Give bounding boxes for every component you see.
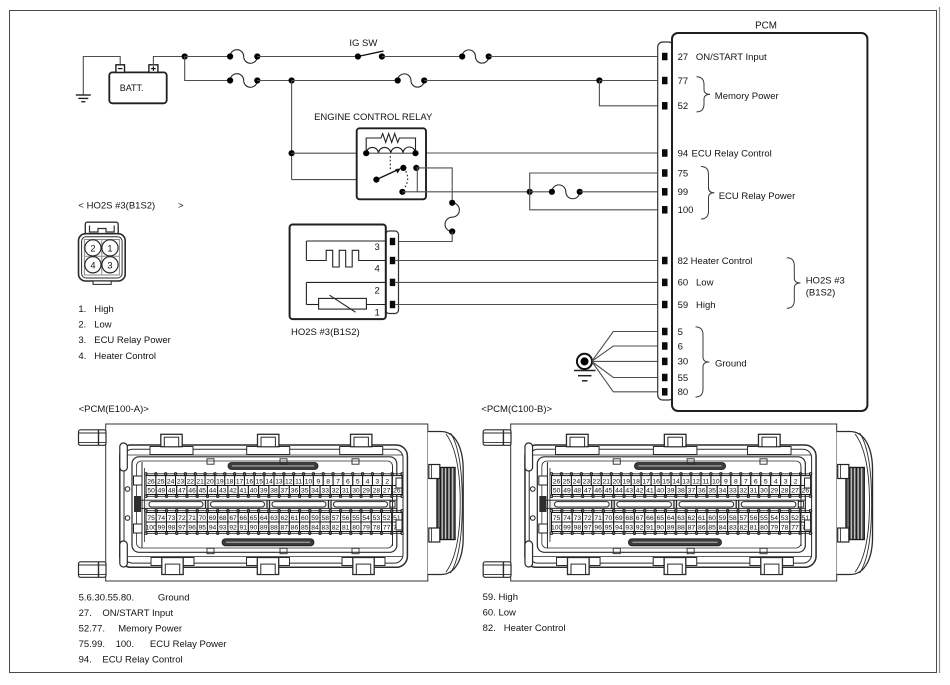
svg-text:75: 75 — [678, 168, 689, 179]
brace HO2S — [787, 258, 801, 309]
connector top tab 2 — [653, 434, 697, 454]
svg-text:91: 91 — [646, 525, 654, 532]
connector top inner dark bar — [228, 463, 318, 470]
bottom left legend — [79, 593, 227, 666]
svg-text:77: 77 — [791, 525, 799, 532]
relay K1 switch blade with arrow — [373, 168, 401, 182]
fuse F1 — [230, 50, 257, 64]
connector left mount tab lower — [483, 562, 511, 578]
svg-text:24: 24 — [167, 479, 175, 486]
svg-text:<PCM(E100-A)>: <PCM(E100-A)> — [79, 404, 150, 415]
svg-text:40: 40 — [250, 488, 258, 495]
PCM pin 94 — [662, 148, 688, 159]
svg-text:28: 28 — [781, 488, 789, 495]
svg-text:36: 36 — [291, 488, 299, 495]
svg-text:61: 61 — [291, 515, 299, 522]
svg-text:11: 11 — [295, 479, 302, 486]
connector corner posts — [525, 443, 533, 567]
svg-text:97: 97 — [584, 525, 592, 532]
svg-text:88: 88 — [270, 525, 278, 532]
PCM connector strip — [658, 42, 674, 400]
svg-text:30: 30 — [352, 488, 360, 495]
wire W1 segment to fuse F1 — [185, 56, 230, 58]
svg-text:14: 14 — [265, 479, 273, 486]
wire node J4 to relay coil — [292, 152, 367, 154]
PCM pin 55 — [662, 373, 688, 384]
svg-text:28: 28 — [373, 488, 381, 495]
svg-text:9: 9 — [724, 479, 728, 486]
svg-text:3. ECU Relay Power: 3. ECU Relay Power — [78, 335, 170, 346]
svg-text:<PCM(C100-B)>: <PCM(C100-B)> — [481, 404, 552, 415]
svg-text:23: 23 — [177, 479, 185, 486]
svg-text:4: 4 — [774, 479, 778, 486]
svg-text:60: 60 — [678, 278, 689, 289]
fuse F6 — [552, 185, 580, 199]
connector lobe lever block — [846, 468, 864, 540]
connector top flange line — [124, 454, 403, 456]
svg-text:2: 2 — [375, 286, 380, 297]
svg-text:84: 84 — [719, 525, 727, 532]
svg-text:61: 61 — [698, 515, 706, 522]
svg-text:13: 13 — [275, 479, 283, 486]
svg-text:71: 71 — [594, 515, 602, 522]
svg-text:69: 69 — [209, 515, 217, 522]
svg-text:3: 3 — [784, 479, 788, 486]
connector cavity outline — [537, 457, 805, 553]
svg-text:(B1S2): (B1S2) — [806, 287, 836, 298]
svg-text:44: 44 — [615, 488, 623, 495]
svg-text:12: 12 — [692, 479, 700, 486]
node J3 — [596, 77, 602, 83]
svg-text:8: 8 — [734, 479, 738, 486]
wire to relay switch common — [292, 179, 377, 181]
connector right wire-cover lobe — [428, 432, 463, 575]
svg-text:95: 95 — [605, 525, 613, 532]
svg-text:86: 86 — [291, 525, 299, 532]
legend title HO2S #3(B1S2) — [78, 200, 184, 211]
svg-text:92: 92 — [229, 525, 237, 532]
connector bottom inner dark bar — [628, 539, 721, 546]
PCM pin 77 — [662, 76, 688, 87]
connector bottom tab 2 — [653, 558, 697, 575]
svg-text:70: 70 — [605, 515, 613, 522]
svg-text:74: 74 — [158, 515, 166, 522]
svg-text:56: 56 — [750, 515, 758, 522]
svg-text:52: 52 — [678, 101, 689, 112]
node J1 — [182, 53, 188, 59]
svg-text:78: 78 — [781, 525, 789, 532]
HO2S heater element — [306, 241, 385, 267]
svg-text:93: 93 — [625, 525, 633, 532]
svg-text:42: 42 — [229, 488, 237, 495]
wire ground to PCM pin 5 — [593, 332, 663, 361]
svg-text:Ground: Ground — [715, 358, 747, 369]
connector body inner outline — [529, 449, 811, 563]
svg-text:100: 100 — [551, 525, 563, 532]
svg-text:26: 26 — [802, 488, 810, 495]
svg-text:19: 19 — [216, 479, 224, 486]
connector body outline — [525, 445, 816, 567]
node J5 — [527, 189, 533, 195]
ground G1 — [76, 95, 91, 102]
svg-text:100: 100 — [678, 205, 694, 216]
svg-text:84: 84 — [311, 525, 319, 532]
wire battery positive riser — [153, 57, 184, 65]
connector right inner details — [393, 466, 403, 546]
svg-text:19: 19 — [622, 479, 630, 486]
svg-text:90: 90 — [250, 525, 258, 532]
wire branch node J3 to PCM pin 52 — [599, 81, 662, 106]
svg-text:26: 26 — [393, 488, 401, 495]
svg-text:20: 20 — [612, 479, 620, 486]
svg-text:68: 68 — [625, 515, 633, 522]
svg-text:88: 88 — [677, 525, 685, 532]
wire W2 segment fuse F3 to node J2 — [257, 80, 291, 82]
wire W1 segment IG SW to fuse F2 — [382, 56, 462, 58]
svg-text:25: 25 — [563, 479, 571, 486]
fuse F2 — [462, 50, 489, 63]
connector top tab 1 — [556, 434, 600, 454]
wire ground to PCM pin 80 — [593, 363, 663, 392]
svg-text:27: 27 — [791, 488, 799, 495]
svg-text:52: 52 — [791, 515, 799, 522]
svg-text:99: 99 — [158, 525, 166, 532]
svg-text:1. High: 1. High — [78, 304, 113, 315]
connector outer frame — [106, 424, 428, 581]
svg-text:99: 99 — [563, 525, 571, 532]
svg-text:74: 74 — [563, 515, 571, 522]
wire W1 segment fuse F2 to PCM pin 27 — [489, 56, 662, 58]
connector body inner outline — [124, 449, 403, 563]
svg-text:32: 32 — [739, 488, 747, 495]
connector bottom tab 3 — [342, 558, 385, 575]
connector outer frame — [511, 424, 837, 581]
svg-text:8: 8 — [326, 479, 330, 486]
svg-text:43: 43 — [625, 488, 633, 495]
svg-text:38: 38 — [677, 488, 685, 495]
svg-text:75: 75 — [553, 515, 561, 522]
svg-text:22: 22 — [593, 479, 601, 486]
svg-text:73: 73 — [168, 515, 176, 522]
node J2 — [289, 77, 295, 83]
wire relay contact to vertical fuse — [416, 168, 452, 203]
svg-text:96: 96 — [594, 525, 602, 532]
svg-text:92: 92 — [636, 525, 644, 532]
wire relay coil to PCM pin 94 — [416, 152, 663, 154]
svg-text:72: 72 — [584, 515, 592, 522]
svg-text:21: 21 — [603, 479, 611, 486]
svg-text:ON/START Input: ON/START Input — [696, 52, 767, 63]
svg-text:27: 27 — [383, 488, 391, 495]
svg-text:53: 53 — [781, 515, 789, 522]
connector bottom inner dark bar — [222, 539, 314, 546]
svg-text:87: 87 — [281, 525, 289, 532]
svg-text:26: 26 — [553, 479, 561, 486]
svg-text:73: 73 — [574, 515, 582, 522]
svg-text:90: 90 — [657, 525, 665, 532]
wire W2 segment fuse F4 to node J3 — [424, 80, 599, 82]
svg-text:BATT.: BATT. — [120, 83, 144, 93]
wire W2 segment node J3 to PCM pin 77 — [599, 80, 662, 82]
svg-text:45: 45 — [605, 488, 613, 495]
connector lobe hinges — [429, 465, 440, 543]
connector left latch details — [530, 462, 550, 548]
connector flange ticks — [613, 459, 767, 554]
PCM pin 59 — [662, 300, 688, 311]
svg-text:33: 33 — [729, 488, 737, 495]
svg-text:37: 37 — [281, 488, 289, 495]
connector cavity outline — [132, 457, 397, 553]
svg-text:29: 29 — [362, 488, 370, 495]
svg-text:Heater Control: Heater Control — [691, 256, 753, 267]
svg-text:55: 55 — [352, 515, 360, 522]
svg-text:72: 72 — [178, 515, 186, 522]
svg-text:35: 35 — [301, 488, 309, 495]
connector top flange line — [529, 454, 811, 456]
svg-text:6: 6 — [754, 479, 758, 486]
brace ECU relay power — [701, 167, 714, 220]
svg-text:62: 62 — [281, 515, 289, 522]
HO2S sensor connector strip — [386, 231, 399, 314]
svg-text:33: 33 — [321, 488, 329, 495]
svg-text:97: 97 — [178, 525, 186, 532]
connector left mount tab upper — [483, 430, 511, 446]
relay K1 box — [357, 128, 426, 199]
connector top tab 3 — [340, 434, 383, 454]
svg-text:68: 68 — [219, 515, 227, 522]
svg-text:5: 5 — [764, 479, 768, 486]
svg-text:11: 11 — [702, 479, 709, 486]
svg-text:46: 46 — [594, 488, 602, 495]
svg-text:56: 56 — [342, 515, 350, 522]
svg-text:25: 25 — [157, 479, 165, 486]
brace ground — [696, 327, 710, 397]
PCM pin 6 — [662, 341, 683, 352]
svg-text:17: 17 — [236, 479, 244, 486]
svg-text:55: 55 — [760, 515, 768, 522]
svg-text:59: 59 — [678, 300, 689, 311]
PCM pin 60 — [662, 278, 688, 289]
fuse F3 — [230, 74, 257, 88]
svg-text:80: 80 — [678, 387, 689, 398]
connector flange ticks — [207, 459, 359, 554]
svg-text:Memory Power: Memory Power — [715, 91, 779, 102]
PCM pin 75 — [662, 168, 688, 179]
svg-text:79: 79 — [771, 525, 779, 532]
svg-text:29: 29 — [771, 488, 779, 495]
svg-text:Low: Low — [696, 278, 714, 289]
relay K1 coil — [366, 147, 415, 153]
svg-text:5: 5 — [678, 327, 683, 338]
svg-text:15: 15 — [256, 479, 264, 486]
svg-text:38: 38 — [270, 488, 278, 495]
svg-text:65: 65 — [657, 515, 665, 522]
svg-text:95: 95 — [199, 525, 207, 532]
connector right wire-cover lobe — [837, 432, 873, 575]
svg-text:14: 14 — [672, 479, 680, 486]
svg-text:>: > — [178, 200, 184, 211]
svg-text:66: 66 — [646, 515, 654, 522]
connector right inner details — [801, 466, 811, 546]
svg-text:16: 16 — [652, 479, 660, 486]
svg-text:12: 12 — [285, 479, 293, 486]
svg-text:94: 94 — [209, 525, 217, 532]
right edge line — [939, 7, 941, 673]
relay K1 coil terminal nodes — [363, 150, 419, 156]
wire ground to PCM pin 55 — [593, 362, 663, 378]
svg-text:50: 50 — [553, 488, 561, 495]
svg-text:64: 64 — [667, 515, 675, 522]
svg-text:39: 39 — [667, 488, 675, 495]
svg-text:ENGINE CONTROL RELAY: ENGINE CONTROL RELAY — [314, 112, 433, 123]
svg-text:49: 49 — [158, 488, 166, 495]
svg-text:HO2S #3(B1S2): HO2S #3(B1S2) — [291, 327, 360, 338]
PCM pin 52 — [662, 101, 688, 112]
wire HO2S pin 1 to PCM pin 59 — [395, 304, 662, 306]
svg-text:100: 100 — [146, 525, 157, 532]
svg-text:ECU Relay Control: ECU Relay Control — [692, 148, 772, 159]
wire battery negative to ground — [83, 57, 120, 96]
svg-text:47: 47 — [584, 488, 592, 495]
svg-text:High: High — [696, 300, 716, 311]
svg-text:82: 82 — [332, 525, 340, 532]
svg-text:70: 70 — [199, 515, 207, 522]
connector face icon — [79, 222, 126, 284]
svg-text:57: 57 — [332, 515, 340, 522]
connector bottom flange line — [124, 556, 403, 558]
wire HO2S pin 4 to PCM pin 82 — [395, 260, 662, 262]
svg-text:45: 45 — [199, 488, 207, 495]
svg-text:37: 37 — [688, 488, 696, 495]
HO2S sensor box — [290, 225, 386, 320]
ground G2 symbol — [574, 354, 596, 381]
connector pin number bands — [550, 473, 812, 535]
svg-text:52: 52 — [383, 515, 391, 522]
relay K1 actuation dotted link — [389, 156, 391, 171]
svg-text:60: 60 — [708, 515, 716, 522]
svg-text:91: 91 — [240, 525, 248, 532]
svg-text:79: 79 — [362, 525, 370, 532]
svg-text:94. ECU Relay Control: 94. ECU Relay Control — [79, 655, 183, 666]
HO2S pin squares — [390, 238, 395, 308]
relay K1 dotted contact arc — [404, 171, 407, 188]
brace memory power — [697, 77, 711, 112]
svg-text:82: 82 — [739, 525, 747, 532]
svg-text:47: 47 — [178, 488, 186, 495]
connector middle slot bar — [545, 500, 805, 508]
svg-text:39: 39 — [260, 488, 268, 495]
svg-text:52.77. Memory Power: 52.77. Memory Power — [79, 624, 182, 635]
svg-text:82: 82 — [678, 256, 689, 267]
wire ground to PCM pin 6 — [593, 346, 663, 361]
svg-text:31: 31 — [342, 488, 350, 495]
relay K1 resistor — [366, 134, 415, 154]
PCM pin 100 — [662, 205, 693, 216]
svg-text:3: 3 — [376, 479, 380, 486]
svg-text:63: 63 — [677, 515, 685, 522]
connector body outline — [120, 445, 408, 567]
svg-text:26: 26 — [147, 479, 155, 486]
wire relay contact to ECU relay power net — [402, 191, 529, 193]
svg-text:3: 3 — [107, 260, 112, 270]
svg-text:60. Low: 60. Low — [483, 607, 516, 618]
svg-text:85: 85 — [301, 525, 309, 532]
svg-text:18: 18 — [226, 479, 234, 486]
wire bracket pins 75 and 100 — [530, 173, 662, 210]
connector middle slot bar — [140, 500, 397, 508]
svg-text:43: 43 — [219, 488, 227, 495]
svg-text:4: 4 — [366, 479, 370, 486]
svg-text:89: 89 — [667, 525, 675, 532]
svg-text:4: 4 — [375, 264, 380, 275]
wire node J2 down to relay — [291, 81, 293, 180]
wire W2 segment node J2 to fuse F4 — [292, 80, 398, 82]
connector bottom tab 2 — [247, 558, 290, 575]
svg-text:15: 15 — [662, 479, 670, 486]
svg-text:98: 98 — [168, 525, 176, 532]
svg-text:1: 1 — [375, 307, 380, 318]
svg-text:85: 85 — [708, 525, 716, 532]
PCM pin 30 — [662, 357, 688, 368]
svg-text:4. Heater Control: 4. Heater Control — [78, 351, 156, 362]
svg-text:HO2S #3: HO2S #3 — [806, 275, 845, 286]
svg-text:65: 65 — [250, 515, 258, 522]
svg-text:81: 81 — [342, 525, 350, 532]
PCM pin 99 — [662, 187, 688, 198]
svg-text:6: 6 — [346, 479, 350, 486]
label HO2S #3 (B1S2) — [806, 275, 845, 298]
svg-text:71: 71 — [188, 515, 196, 522]
svg-text:42: 42 — [636, 488, 644, 495]
svg-text:17: 17 — [642, 479, 650, 486]
svg-text:58: 58 — [321, 515, 329, 522]
svg-text:86: 86 — [698, 525, 706, 532]
svg-text:82. Heater Control: 82. Heater Control — [483, 623, 566, 634]
svg-text:44: 44 — [209, 488, 217, 495]
switch IG SW — [349, 38, 385, 60]
fuse F5 vertical — [445, 203, 459, 232]
connector C100-B illustration — [483, 424, 872, 581]
svg-text:94: 94 — [615, 525, 623, 532]
svg-text:77: 77 — [383, 525, 391, 532]
fuse F4 — [398, 74, 425, 87]
connector bottom tab 3 — [750, 558, 794, 575]
svg-text:24: 24 — [573, 479, 581, 486]
svg-text:75: 75 — [147, 515, 155, 522]
svg-text:23: 23 — [583, 479, 591, 486]
PCM pin 82 — [662, 256, 688, 267]
HO2S sensing element — [306, 282, 385, 312]
svg-text:49: 49 — [563, 488, 571, 495]
svg-text:16: 16 — [246, 479, 254, 486]
svg-text:69: 69 — [615, 515, 623, 522]
PCM pin 27 — [662, 52, 688, 63]
svg-text:34: 34 — [311, 488, 319, 495]
svg-text:30: 30 — [678, 357, 689, 368]
svg-text:31: 31 — [750, 488, 758, 495]
svg-text:77: 77 — [678, 76, 689, 87]
svg-text:96: 96 — [188, 525, 196, 532]
svg-text:5: 5 — [356, 479, 360, 486]
svg-text:87: 87 — [688, 525, 696, 532]
svg-text:78: 78 — [373, 525, 381, 532]
svg-text:59: 59 — [719, 515, 727, 522]
svg-text:34: 34 — [719, 488, 727, 495]
svg-text:20: 20 — [206, 479, 214, 486]
svg-text:2: 2 — [90, 244, 95, 254]
svg-text:53: 53 — [373, 515, 381, 522]
svg-text:59: 59 — [311, 515, 319, 522]
